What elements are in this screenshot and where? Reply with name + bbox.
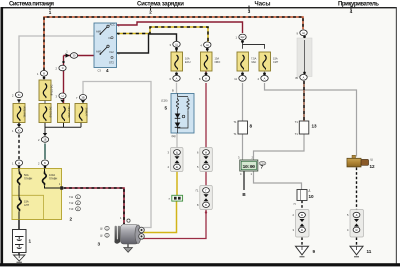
node 30 junction circle on AM2 wire xyxy=(66,53,70,57)
wire: battery to ground xyxy=(18,253,20,256)
svg-text:АЛТ: АЛТ xyxy=(24,203,29,207)
wire: dashed black wire box10 to ground 9 xyxy=(301,201,303,246)
wire: alternator case to ground xyxy=(127,244,129,248)
fusible link 100A ГЛАВН xyxy=(42,172,46,186)
svg-text:ЗФИ АМ1: ЗФИ АМ1 xyxy=(67,106,71,118)
svg-text:IG: IG xyxy=(109,36,112,40)
fuse lower B xyxy=(39,101,53,123)
ground symbol 9 xyxy=(296,246,316,256)
wire: yellow-black dashed wire from switch pin 2 xyxy=(117,27,209,42)
node connector 1(Ю) below fuse КОНД xyxy=(12,124,23,133)
svg-text:Система питания: Система питания xyxy=(9,1,54,7)
column tick 2 xyxy=(150,6,152,11)
wire: white-red dashed top bus from battery feed xyxy=(44,17,303,70)
node connector 2(Ю) above fuse КОНД xyxy=(12,92,23,103)
alternator terminal L xyxy=(139,234,145,240)
alternator body xyxy=(121,225,139,245)
node connector 7(ЗВ) above fuse ИГН xyxy=(76,95,87,104)
svg-text:А: А xyxy=(303,75,305,79)
svg-text:10:00: 10:00 xyxy=(243,164,256,170)
node connector 6(А) below fuse ECU xyxy=(170,72,181,81)
svg-text:ОБО: ОБО xyxy=(215,60,221,64)
frame left border xyxy=(1,7,4,265)
cigarette lighter component 12 xyxy=(347,155,375,169)
svg-text:2: 2 xyxy=(70,217,73,222)
svg-text:ЧАС: ЧАС xyxy=(251,60,256,64)
fusebox side pin labels Г11 Г12 Г13 xyxy=(69,195,80,211)
svg-text:Г13: Г13 xyxy=(69,207,74,211)
box 10 component xyxy=(294,189,314,207)
svg-text:15А: 15А xyxy=(24,200,29,204)
svg-text:10: 10 xyxy=(309,194,315,199)
svg-text:100А: 100А xyxy=(49,173,55,177)
svg-text:А: А xyxy=(264,76,266,80)
wire: teal wire to main fusebox pin 2 xyxy=(44,144,46,160)
connector block O2 above ground 11 xyxy=(347,210,363,238)
svg-text:1: 1 xyxy=(49,10,52,15)
svg-text:IG2: IG2 xyxy=(110,50,115,54)
switch contact AM2-IG lever xyxy=(101,47,108,54)
node connector 3(Н) above fuse АМ1 xyxy=(56,93,67,103)
node connector 8(А) below fuse 2 xyxy=(199,72,210,81)
node connector 4(А) below fuse СИГ xyxy=(258,72,269,81)
svg-text:С3: С3 xyxy=(98,69,102,73)
connector block K1 (pink wire upper) xyxy=(197,148,212,172)
svg-text:Н: Н xyxy=(62,94,64,98)
ground symbol under battery xyxy=(14,255,25,262)
wire: white wire regulator to connector block xyxy=(176,133,178,148)
switch pin label IG1 xyxy=(111,37,113,39)
svg-text:П: П xyxy=(294,202,296,206)
svg-text:11: 11 xyxy=(367,249,372,254)
green inline connector 7B on yellow wire xyxy=(168,195,182,201)
svg-text:8: 8 xyxy=(250,124,253,129)
node connector 1(Щ2) on red bus above fuse ЧАС xyxy=(236,34,247,43)
node connector 2(Б) at fusebox pin 2 xyxy=(38,160,49,168)
connector strip pass-through xyxy=(297,38,312,77)
fusible link 15A АЛТ xyxy=(17,198,21,212)
svg-text:ГЛАВН: ГЛАВН xyxy=(24,176,32,180)
node connector 2(1Б) on bus drop xyxy=(38,133,49,142)
svg-text:В: В xyxy=(205,203,207,207)
frame bottom border xyxy=(0,263,400,266)
fuse ECU F1 (10A) xyxy=(171,52,191,71)
fuse 2 (15A) xyxy=(201,52,221,71)
svg-text:Э: Э xyxy=(62,66,64,70)
svg-text:ЭФ ГЛАВ: ЭФ ГЛАВ xyxy=(50,85,54,96)
wire: red-black dashed battery B+ cable fusebox to alternator xyxy=(64,188,125,224)
svg-text:А: А xyxy=(242,76,244,80)
wire: gray wire fuse 3 to junction box 8 and clock xyxy=(242,71,244,159)
column tick 4 xyxy=(350,6,352,11)
fuse ИГН lower D xyxy=(75,104,89,123)
svg-text:ST2: ST2 xyxy=(109,61,114,65)
svg-text:Г11: Г11 xyxy=(69,195,74,199)
wire: white link into fuse КОНД xyxy=(18,99,20,104)
node connector 3(Щ) above fuse ECU xyxy=(170,41,181,50)
node connector 8(В) on pink wire at block K2 exit xyxy=(205,211,207,213)
fuse АМ1 lower C xyxy=(58,104,72,123)
node connector 1(Ф) on top dashed bus xyxy=(37,71,48,80)
svg-text:В: В xyxy=(172,89,174,93)
svg-text:Щ2: Щ2 xyxy=(241,35,245,39)
frame top border xyxy=(3,7,397,8)
node connector 35(А) at strip bottom xyxy=(295,74,307,80)
regulator coil left xyxy=(176,98,178,111)
alternator component 3 xyxy=(98,216,145,247)
svg-text:3: 3 xyxy=(248,9,251,14)
battery component 1 xyxy=(13,230,32,253)
wire: brown-black dashed wire strip to box 13 xyxy=(303,81,305,121)
svg-text:ЭФ ГЛАВ: ЭФ ГЛАВ xyxy=(49,107,53,118)
connector block K2 (pink wire lower) xyxy=(196,186,213,210)
regulator diode 2 xyxy=(175,123,181,128)
svg-text:ЗВ: ЗВ xyxy=(81,95,85,99)
svg-text:ЗАЖИГ: ЗАЖИГ xyxy=(85,108,89,118)
svg-text:Система зарядки: Система зарядки xyxy=(137,1,184,7)
svg-text:2: 2 xyxy=(149,10,152,15)
fuse ЭФИ upper B xyxy=(39,80,54,101)
wire: black wire clock pin 4 to body ground B xyxy=(243,171,245,190)
alternator top connector xyxy=(127,219,130,222)
main fusebox component 2 xyxy=(12,169,73,222)
junction box 8 xyxy=(233,120,252,136)
fusible link 50A AM1 xyxy=(17,172,21,186)
svg-text:15А: 15А xyxy=(215,57,220,61)
svg-text:Часы: Часы xyxy=(254,1,270,7)
node connector 11(А) below fuse ЧАС xyxy=(234,72,246,81)
svg-text:3: 3 xyxy=(98,242,101,247)
wire: white wire switch AM1 to fuse row (node AM1) xyxy=(19,36,94,92)
wire: black-white dashed wire fuse A to main fusebox xyxy=(18,123,20,169)
svg-text:М: М xyxy=(205,150,207,154)
switch contact AM1-ACC lever xyxy=(101,27,108,34)
svg-text:Прикуриватель: Прикуриватель xyxy=(338,1,379,7)
svg-text:Б: Б xyxy=(44,161,46,165)
svg-text:7: 7 xyxy=(261,165,264,170)
svg-text:СИГ: СИГ xyxy=(273,60,279,64)
node connector 9(Щ) on dashed bus at strip top xyxy=(297,30,308,36)
wire: white wire fuse to regulator xyxy=(176,71,178,94)
node connector 2(Э) on red AM2 wire xyxy=(56,65,67,71)
node connector 1(Д) at fusebox pin 1 xyxy=(12,160,23,168)
svg-text:12: 12 xyxy=(370,164,376,169)
svg-text:АМ1: АМ1 xyxy=(96,30,102,34)
wire: dark red ACC bus to clock fuses xyxy=(117,22,243,33)
wire: dashed black wire lighter to ground 11 xyxy=(356,168,358,246)
svg-text:Д: Д xyxy=(356,213,358,217)
alternator pulley xyxy=(115,226,117,243)
wire: yellow wire connector block to alternator L terminal xyxy=(176,172,178,196)
svg-text:5: 5 xyxy=(165,106,168,111)
regulator zener diode xyxy=(175,114,181,119)
node connector 4(Щ0) above fuse 2 xyxy=(200,42,211,51)
svg-text:4: 4 xyxy=(106,68,109,73)
svg-text:АМ2: АМ2 xyxy=(96,50,102,54)
svg-text:ЕСU: ЕСU xyxy=(185,60,191,64)
column tick 3 xyxy=(248,6,250,11)
fuse ЧАС (7.5A) xyxy=(237,52,257,71)
svg-text:7,5А: 7,5А xyxy=(251,57,257,61)
column tick 1 xyxy=(49,6,51,11)
svg-text:АСС: АСС xyxy=(110,22,116,26)
svg-text:ГЛАВН: ГЛАВН xyxy=(49,176,57,180)
wire: black wire fusebox to battery xyxy=(18,220,20,230)
fuse СИГ (15A) xyxy=(259,52,279,71)
svg-text:М: М xyxy=(205,165,207,169)
connector block J1 (regulator to yellow wire) xyxy=(168,148,183,172)
wire: clock top pin stubs xyxy=(243,159,254,161)
connector block O1 above ground 9 xyxy=(293,210,309,238)
fuse КОНД lower-left A xyxy=(13,104,27,123)
ground symbol under alternator xyxy=(124,248,133,253)
wire: gray wire fuse 4 to cigarette lighter xyxy=(265,71,357,157)
clock component 7 xyxy=(238,156,266,177)
svg-text:1Б: 1Б xyxy=(43,138,46,142)
fusebox internal wires xyxy=(19,169,62,220)
svg-text:10А: 10А xyxy=(185,57,190,61)
svg-text:(С16): (С16) xyxy=(161,99,168,103)
wire: red branch below connector to fuse ЧАС xyxy=(243,41,265,49)
fusebox output pin to B+ cable xyxy=(60,186,63,189)
frame right border xyxy=(396,7,397,264)
wire: white wire fuse ИГН to alternator IG terminal xyxy=(83,82,151,228)
wire: gray wire clock pin 1 to box 10 xyxy=(254,171,302,190)
svg-text:4: 4 xyxy=(350,9,353,14)
svg-text:Ю: Ю xyxy=(18,128,21,132)
svg-text:Ю: Ю xyxy=(18,93,21,97)
alternator terminal B xyxy=(139,227,145,233)
svg-text:Д: Д xyxy=(309,189,311,193)
regulator coil right xyxy=(187,98,189,111)
svg-text:13: 13 xyxy=(312,124,318,129)
svg-text:Д: Д xyxy=(18,161,20,165)
wire: dark red wire AM2 feed with junction 30 xyxy=(64,56,95,104)
junction box 13 xyxy=(295,120,317,136)
voltage regulator U5 box xyxy=(161,89,194,139)
switch pin label ST2 xyxy=(111,56,113,58)
svg-text:15А: 15А xyxy=(273,57,278,61)
svg-text:А: А xyxy=(176,76,178,80)
svg-text:(Щ): (Щ) xyxy=(172,134,176,138)
svg-text:АЛЬ АМ1: АЛЬ АМ1 xyxy=(23,106,27,118)
svg-text:Ф: Ф xyxy=(43,71,45,75)
wire: black wire from switch pin 6 to fuse ECU xyxy=(117,34,177,53)
svg-text:9: 9 xyxy=(313,249,316,254)
wire: dark pink wire fuse 2 down through connectors to alternator B terminal xyxy=(144,71,207,239)
wire: gray wire box13 to clock pin 2 xyxy=(254,134,305,159)
svg-text:50А: 50А xyxy=(24,173,29,177)
ground symbol 11 xyxy=(350,246,372,256)
wire: bus joining fuses B C D bottoms xyxy=(45,123,82,136)
svg-text:Г12: Г12 xyxy=(69,201,74,205)
svg-text:А: А xyxy=(205,76,207,80)
ignition switch U4 box xyxy=(94,22,120,73)
svg-text:1: 1 xyxy=(29,239,32,244)
